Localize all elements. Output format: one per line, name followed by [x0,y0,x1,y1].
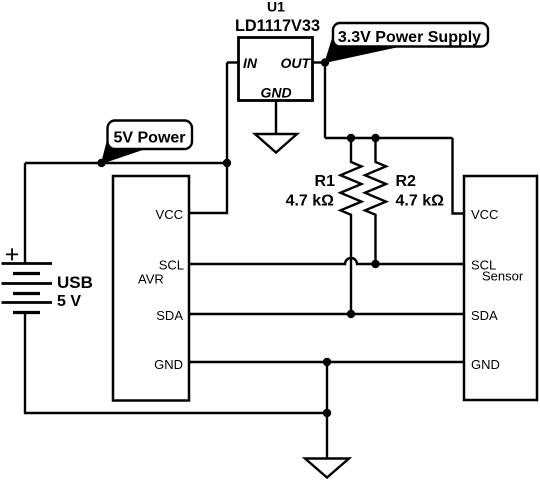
wire 3.3V to Sensor VCC [453,138,465,214]
wire U1 GND lead [275,100,277,134]
wire 3.3V vertical from OUT [324,63,326,139]
voltage regulator U1 LD1117V33 box [239,38,313,101]
svg-text:5V Power: 5V Power [113,130,185,147]
svg-text:AVR: AVR [138,272,164,287]
callout 3.3V Power Supply box [325,23,488,63]
ground symbol under U1 [255,134,297,153]
wire battery positive vertical [24,163,26,264]
junction dot R2 top [371,134,379,142]
svg-text:SCL: SCL [471,258,496,273]
wire 5V horizontal net [25,162,227,164]
svg-text:OUT: OUT [280,55,311,71]
junction dot GND net [323,358,331,366]
svg-text:VCC: VCC [156,207,183,222]
svg-text:R1: R1 [315,173,336,190]
svg-text:SDA: SDA [156,308,183,323]
svg-text:4.7 kΩ: 4.7 kΩ [396,193,445,210]
svg-text:5 V: 5 V [57,293,81,310]
battery BT1 plates [2,264,53,313]
ground symbol bottom [305,459,349,478]
wire U1 IN pin [227,61,239,63]
wire U1 OUT pin [312,61,325,63]
wire SCL net horizontal with hop over R1 lead [189,258,464,264]
callout 5V Power box [102,121,193,164]
wire 3.3V horizontal [325,137,453,139]
wire AVR VCC to 5V [189,63,227,214]
svg-text:IN: IN [243,55,258,71]
svg-text:GND: GND [260,85,291,101]
wire bottom ground horizontal [24,412,327,414]
wire SDA net horizontal [189,313,464,315]
junction dot R1 to SDA [347,310,355,318]
wire battery negative vertical [24,312,26,414]
junction dot OUT node [321,58,329,66]
wire GND net horizontal [189,361,464,363]
svg-text:U1: U1 [267,0,285,15]
svg-text:4.7 kΩ: 4.7 kΩ [286,193,335,210]
junction dot 5V / IN / VCC [223,159,231,167]
svg-text:SDA: SDA [471,308,498,323]
svg-text:SCL: SCL [159,258,184,273]
svg-text:USB: USB [57,273,93,292]
junction dot R1 top [347,134,355,142]
resistor R2 [365,138,386,264]
svg-text:+: + [5,240,20,268]
resistor R1 [341,138,362,314]
junction dot bottom ground [323,409,331,417]
svg-text:LD1117V33: LD1117V33 [235,17,320,35]
svg-text:GND: GND [154,357,183,372]
wire ground vertical to symbol [326,362,328,460]
svg-text:GND: GND [471,357,500,372]
junction dot 5V callout anchor [97,159,105,167]
svg-text:R2: R2 [396,173,417,190]
Sensor box U3 [464,176,537,400]
svg-text:3.3V Power Supply: 3.3V Power Supply [338,29,481,46]
svg-text:VCC: VCC [471,207,498,222]
junction dot R2 to SCL [371,260,379,268]
AVR box U2 [113,176,189,401]
